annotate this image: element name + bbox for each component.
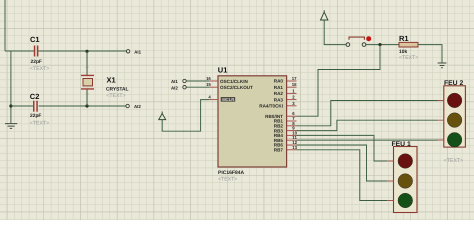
wire RB7 to FEU1 green [297, 150, 388, 201]
wire power to button [324, 20, 346, 45]
svg-text:RA2: RA2 [274, 91, 284, 96]
svg-text:MCLR: MCLR [222, 97, 234, 102]
svg-text:16: 16 [206, 76, 211, 81]
pin 7 [287, 116, 297, 121]
svg-text:17: 17 [292, 76, 297, 81]
svg-text:CRYSTAL: CRYSTAL [106, 87, 129, 93]
svg-text:PIC16F84A: PIC16F84A [218, 170, 245, 176]
pin 11 [287, 135, 297, 140]
svg-text:RA1: RA1 [274, 85, 284, 90]
pin 9 [287, 126, 297, 131]
terminal AI1 left [126, 49, 141, 54]
wire RB6 to FEU1 amber [297, 145, 388, 181]
crystal X1 [81, 67, 129, 99]
wire crystal branch [86, 51, 88, 106]
wire C1 row [5, 50, 126, 52]
power arrow button [321, 10, 328, 20]
svg-text:<TEXT>: <TEXT> [106, 93, 125, 99]
wire RB2 to FEU2 red [297, 101, 438, 126]
wire RB5 to FEU2 green [297, 139, 438, 141]
svg-text:22pF: 22pF [31, 59, 42, 65]
node junction button-R1 [378, 43, 381, 46]
terminal AI1 chip side [171, 79, 186, 84]
svg-text:RB7: RB7 [274, 148, 284, 153]
traffic light FEU2 [438, 80, 466, 164]
wire R1 to ground [418, 45, 442, 63]
pin 15 [206, 82, 218, 87]
capacitor C1 [30, 35, 49, 72]
pin 12 [287, 140, 298, 145]
svg-text:RA4/T0CKI: RA4/T0CKI [259, 104, 283, 109]
svg-text:C2: C2 [30, 92, 40, 101]
resistor R1 [399, 34, 418, 61]
wire RB4 to FEU1 red [297, 135, 388, 161]
svg-text:OSC1/CLKIN: OSC1/CLKIN [220, 79, 249, 84]
pin 13 [287, 145, 298, 150]
pin 1 [287, 88, 297, 93]
svg-text:<TEXT>: <TEXT> [30, 66, 49, 72]
wire left rail [10, 51, 12, 123]
pin 2 [287, 95, 297, 100]
pin 17 [287, 76, 297, 81]
svg-text:18: 18 [292, 82, 297, 87]
node junction C1-crystal [85, 50, 88, 53]
pin 6 [287, 111, 297, 116]
pin 16 [206, 76, 218, 81]
pin 3 [287, 101, 297, 106]
svg-text:22pF: 22pF [30, 113, 41, 119]
wire RB3 to FEU2 amber [297, 120, 438, 130]
wire button to R1 [366, 44, 399, 46]
pin 8 [287, 121, 297, 126]
svg-text:<TEXT>: <TEXT> [444, 158, 463, 164]
node junction C2-crystal [85, 104, 88, 107]
pin 4 [208, 95, 218, 100]
pin 18 [287, 82, 297, 87]
svg-text:<TEXT>: <TEXT> [399, 55, 418, 61]
svg-text:<TEXT>: <TEXT> [218, 176, 237, 182]
svg-text:AI1: AI1 [134, 49, 141, 54]
wire C2 row [11, 105, 126, 107]
wire junction to RB0 [297, 45, 381, 117]
svg-text:AI2: AI2 [171, 85, 178, 90]
svg-text:13: 13 [292, 145, 297, 150]
terminal AI2 chip side [171, 85, 186, 90]
svg-text:AI1: AI1 [171, 79, 178, 84]
svg-text:C1: C1 [30, 35, 40, 44]
svg-text:<TEXT>: <TEXT> [30, 120, 49, 126]
ground right [438, 63, 447, 68]
node junction rail-C2 [9, 104, 12, 107]
ground left [5, 124, 17, 129]
svg-text:OSC2/CLKOUT: OSC2/CLKOUT [220, 85, 253, 90]
svg-text:RA3: RA3 [274, 97, 284, 102]
chip U1 PIC16F84A [218, 66, 287, 183]
power arrow MCLR [159, 112, 166, 120]
svg-text:U1: U1 [218, 66, 228, 75]
terminal AI2 left [126, 104, 141, 109]
wire MCLR net [162, 100, 209, 132]
svg-text:X1: X1 [107, 76, 116, 85]
button [346, 36, 371, 46]
traffic light FEU1 [387, 141, 417, 213]
svg-text:RA0: RA0 [274, 79, 284, 84]
wire AI1 to pin16 [186, 80, 209, 82]
wire AI2 to pin15 [186, 86, 209, 88]
svg-text:R1: R1 [399, 34, 409, 43]
pin 10 [287, 130, 298, 135]
wire top-left vertical [4, 0, 6, 51]
svg-text:AI2: AI2 [134, 104, 141, 109]
capacitor C2 [30, 92, 49, 126]
svg-text:15: 15 [206, 82, 211, 87]
